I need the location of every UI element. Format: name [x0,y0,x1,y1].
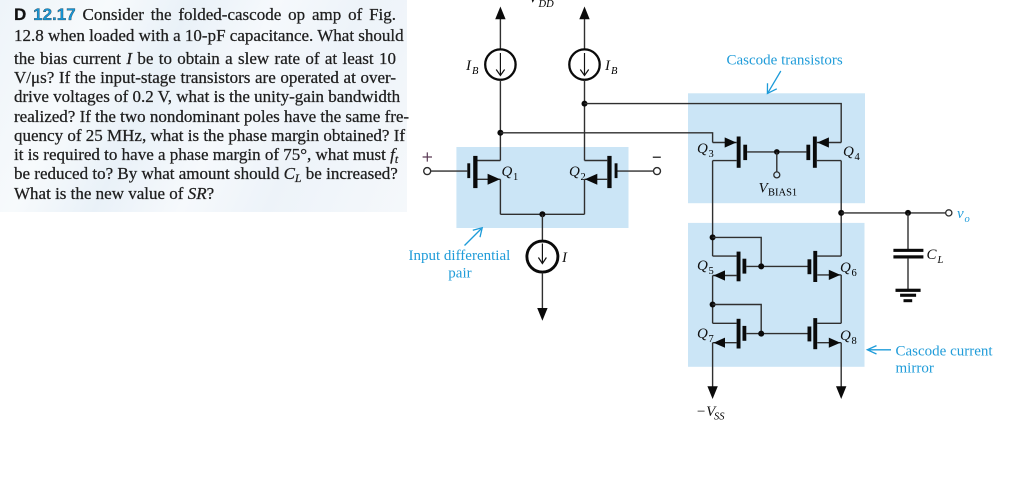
label CL [927,247,944,266]
wire: Q8 source to -VSS arrow [836,343,846,399]
label Q8 [840,328,857,347]
current source IB2 [569,49,599,79]
wire + input to Q1 gate [431,170,468,172]
wire: VBIAS stub [776,152,778,172]
label Q1 [502,164,519,183]
svg-text:Input differential: Input differential [409,248,511,264]
svg-text:I: I [604,58,611,74]
node: CL tap [905,210,911,216]
node: tail node [539,211,545,217]
svg-text:Q: Q [697,258,708,274]
highlight box: input differential pair [456,147,628,228]
svg-text:Q: Q [840,328,851,344]
svg-text:8: 8 [852,336,857,347]
transistor Q4 [806,137,841,168]
transistor Q6 [808,251,842,282]
svg-text:L: L [937,255,944,266]
svg-text:Q: Q [843,144,854,160]
svg-text:Q: Q [697,326,708,342]
node: left fold node [497,130,503,136]
svg-text:6: 6 [852,268,857,279]
svg-text:Q: Q [840,260,851,276]
transistor Q3 [713,137,748,168]
svg-text:DD: DD [538,0,555,10]
wire: output [841,212,946,214]
svg-text:Q: Q [502,164,513,180]
wire: Q3 drain down to mirror [712,161,714,257]
label VBIAS1 [759,181,798,199]
label Q3 [697,141,714,160]
transistor Q2 [585,156,618,188]
node: mirror node A [710,234,716,240]
capacitor CL [893,249,923,259]
label -VSS [696,404,725,423]
wire: Q7 source to -VSS arrow [707,343,717,399]
svg-text:C: C [927,247,938,263]
wire: left branch below IB1 to Q1 drain [499,80,501,161]
problem statement text [14,5,396,203]
teal arrow to diff pair box [465,228,483,246]
svg-text:B: B [611,66,618,77]
wire: Q1 source down [499,179,501,214]
svg-text:3: 3 [709,149,714,160]
wire: Q6 source down to Q8 [840,275,842,323]
VDD label (cut off at top) [529,0,555,10]
VDD arrow left [495,7,505,50]
wire: Q6 drain up to output node [840,213,842,256]
svg-text:B: B [472,66,479,77]
node: Q5 gate node [758,263,764,269]
wire: I to -VSS arrow [537,273,547,321]
wire: tail joining [500,213,584,215]
label IB2 [604,58,618,77]
svg-text:I: I [465,58,472,74]
svg-text:BIAS1: BIAS1 [768,188,797,199]
current source IB1 [485,49,515,79]
node: right fold node [582,101,588,107]
label Q5 [697,258,714,277]
svg-text:v: v [957,206,964,222]
svg-text:mirror: mirror [896,361,934,377]
label vo [957,206,970,225]
svg-text:1: 1 [513,172,518,183]
terminal - input [653,157,661,174]
svg-text:Cascode transistors: Cascode transistors [727,53,843,69]
label: Input differential pair [409,248,511,281]
wire: Q4 drain down to output [840,161,842,213]
svg-text:5: 5 [709,266,714,277]
wire: Q5 gate to Q6 gate [746,265,807,267]
wire: CL top [907,213,909,250]
terminal vo [946,210,952,216]
VDD arrow right [579,7,589,50]
label Q4 [843,144,861,163]
wire: right branch below IB2 to Q2 drain [584,80,586,161]
node: mirror node B [710,302,716,308]
ground [896,289,921,303]
svg-text:4: 4 [855,152,861,163]
wire: tail to current source I [541,214,543,241]
label Q6 [840,260,857,279]
wire: Q7 gate to Q8 gate [746,333,807,335]
svg-text:SS: SS [714,412,725,423]
highlight box: cascode transistors [688,93,865,203]
node: Q7 gate node [758,331,764,337]
svg-text:Q: Q [697,141,708,157]
svg-text:Cascode current: Cascode current [896,344,994,360]
teal arrow to mirror box [867,346,891,354]
teal arrow to cascode box [767,71,780,93]
svg-text:I: I [561,250,568,266]
transistor Q1 [467,156,500,188]
terminal + input [423,152,432,174]
wire: Q2 source down [584,179,586,214]
wire: Q5 source down [712,276,714,324]
current source I [527,241,558,272]
label Q7 [697,326,714,345]
wire - input to Q2 gate [618,170,654,172]
svg-text:o: o [965,214,970,225]
svg-text:pair: pair [448,265,471,281]
node: output at Q4/Q6 [838,210,844,216]
wire: Q5 diode connection [713,237,762,266]
highlight box: cascode current mirror [688,223,865,367]
wire: left fold wire to Q3 source [500,133,712,143]
terminal VBIAS1 [774,172,780,178]
wire: Q3 gate to Q4 gate [747,151,806,153]
node: VBIAS node [774,149,780,155]
wire: right fold wire to Q4 source [585,104,842,143]
wire: Q7 diode connection [713,305,762,334]
label I [561,250,568,266]
transistor Q8 [808,318,842,349]
transistor Q7 [713,319,747,349]
label IB1 [465,58,479,77]
transistor Q5 [713,252,747,282]
light scan tint behind text column [0,0,407,212]
label: Cascode current mirror [896,344,994,377]
wire: CL bottom [907,258,909,289]
label Q2 [569,164,586,183]
svg-text:Q: Q [569,164,580,180]
